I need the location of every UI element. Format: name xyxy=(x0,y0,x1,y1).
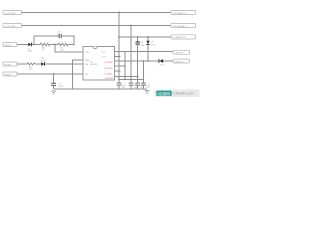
port R2 xyxy=(171,23,196,27)
diode D4 hanging xyxy=(146,37,156,47)
node O xyxy=(118,79,119,80)
svg-text:2 OF 3VSB: 2 OF 3VSB xyxy=(5,26,16,28)
wire cap tap xyxy=(53,74,55,83)
port L5 xyxy=(3,72,17,76)
ground left xyxy=(51,91,56,94)
capacitor C10 xyxy=(117,80,127,90)
svg-text:»迅维网: »迅维网 xyxy=(157,91,170,96)
svg-text:PSON1: PSON1 xyxy=(4,45,12,47)
wire xyxy=(53,85,55,89)
port L3 xyxy=(3,42,17,46)
svg-text:GND: GND xyxy=(85,60,90,62)
wire xyxy=(35,63,41,65)
node B xyxy=(54,44,55,45)
node S xyxy=(143,79,144,80)
node Q xyxy=(130,79,131,80)
ground right xyxy=(145,91,150,94)
svg-text:12V SENSE 01: 12V SENSE 01 xyxy=(173,13,188,15)
wire bottom bus xyxy=(119,79,144,81)
wire to pin xyxy=(45,63,83,65)
wire from L3 xyxy=(17,44,28,46)
wire xyxy=(68,44,74,46)
resistor R2 xyxy=(58,43,68,51)
node C xyxy=(73,44,74,45)
wire xyxy=(50,44,58,46)
svg-text:5V SENSE 01: 5V SENSE 01 xyxy=(173,37,187,39)
capacitor C12 xyxy=(135,80,145,90)
port R5 xyxy=(173,59,190,63)
watermark chinafix xyxy=(154,90,200,98)
port R3 xyxy=(171,35,196,39)
wire from L5 xyxy=(17,73,83,75)
op-amp U1 body xyxy=(83,47,115,81)
node R xyxy=(137,79,138,80)
capacitor C5 xyxy=(57,32,62,39)
svg-text:3.3VSB1: 3.3VSB1 xyxy=(104,62,113,64)
svg-text:1.8VSB1: 1.8VSB1 xyxy=(104,68,113,70)
wire diode down xyxy=(147,45,149,61)
node D xyxy=(53,73,54,74)
diode D1 xyxy=(28,43,33,53)
svg-text:EN: EN xyxy=(85,64,88,66)
wire pin1 to port R4 xyxy=(115,51,173,53)
svg-text:1 OF 5VSB: 1 OF 5VSB xyxy=(5,13,16,15)
node L xyxy=(143,60,144,61)
pin stubs right xyxy=(115,51,121,53)
svg-text:VREF1: VREF1 xyxy=(4,74,12,76)
port L1 xyxy=(3,10,22,14)
wire rail3 xyxy=(119,36,171,38)
diode D2 xyxy=(41,58,46,66)
capacitor C2 xyxy=(51,83,64,88)
svg-text:Chinafix.com: Chinafix.com xyxy=(173,92,193,96)
node F xyxy=(118,36,119,37)
diode D3 on port wire xyxy=(159,59,164,66)
wire tap to pin1 xyxy=(55,45,83,53)
wire from L4 xyxy=(17,63,27,65)
port L4 xyxy=(3,62,17,66)
wire vertical x119 xyxy=(118,13,120,80)
wire rail2 xyxy=(22,25,172,27)
svg-text:SE1059: SE1059 xyxy=(90,64,98,66)
node E xyxy=(118,12,119,13)
node H xyxy=(124,65,125,66)
capacitor C13 xyxy=(141,80,151,90)
svg-text:PWR OK: PWR OK xyxy=(175,53,184,55)
ground rail xyxy=(54,88,147,90)
svg-text:10uF: 10uF xyxy=(59,86,64,88)
wire cap loop right xyxy=(61,36,74,45)
wire vertical x131 xyxy=(130,26,132,80)
node N xyxy=(147,60,148,61)
wire pin2 xyxy=(115,56,120,58)
svg-text:VIN: VIN xyxy=(85,52,89,54)
wire cap loop left xyxy=(34,36,59,45)
node P xyxy=(124,79,125,80)
wire rail1 xyxy=(22,12,172,14)
resistor R3 xyxy=(27,63,35,71)
ground branch from pin2 xyxy=(73,60,84,89)
wire vertical x137 xyxy=(137,44,139,79)
resistor R1 xyxy=(40,43,50,51)
pin stubs left xyxy=(77,51,83,53)
wire vertical x125 xyxy=(124,52,126,80)
svg-text:5VSB OK: 5VSB OK xyxy=(175,61,185,63)
wire to port R5 xyxy=(163,60,173,62)
capacitor C11 xyxy=(129,80,139,90)
port L2 xyxy=(3,23,22,27)
node A xyxy=(33,44,34,45)
port R1 xyxy=(171,10,196,14)
wire pin3 xyxy=(115,60,160,62)
port R4 xyxy=(173,50,190,54)
svg-text:FPON1: FPON1 xyxy=(4,64,12,66)
svg-text:1.2VSB1: 1.2VSB1 xyxy=(104,74,113,76)
node I xyxy=(130,25,131,26)
wire xyxy=(32,44,40,46)
node J xyxy=(137,36,138,37)
node G xyxy=(118,56,119,57)
wire vertical x143.5 xyxy=(143,61,145,80)
wire pin6 xyxy=(115,76,138,78)
node M xyxy=(147,36,148,37)
svg-text:3.3V SENSE 0: 3.3V SENSE 0 xyxy=(173,26,187,28)
capacitor C6 hanging xyxy=(136,37,145,47)
svg-text:0.9VSB1: 0.9VSB1 xyxy=(105,78,114,80)
wire pin4 xyxy=(115,65,126,67)
node K xyxy=(137,76,138,77)
